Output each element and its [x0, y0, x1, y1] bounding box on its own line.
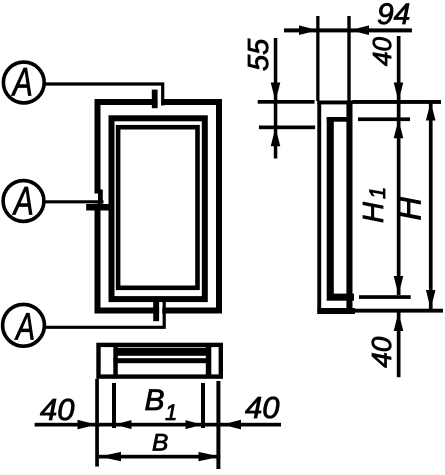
extension line top-left of side view: [316, 16, 319, 101]
svg-text:40: 40: [366, 336, 397, 368]
arrow 40-top up / H1 top: [394, 119, 404, 138]
gap in outer frame left border: [94, 194, 98, 204]
front view outer frame: [98, 102, 220, 311]
svg-text:40: 40: [367, 37, 397, 66]
dimension line H: [429, 102, 433, 310]
dimension line B: [99, 455, 221, 459]
svg-text:A: A: [14, 306, 35, 348]
witness line B1 right: [201, 383, 205, 428]
svg-text:H: H: [391, 197, 428, 221]
circle A3: [3, 304, 45, 346]
dimension line 40-top / H1: [397, 36, 401, 295]
circle A2: [3, 181, 44, 222]
svg-text:1: 1: [365, 187, 390, 199]
svg-text:94: 94: [377, 0, 410, 31]
bottom section mid bar: [113, 358, 208, 363]
arrow 94 left: [299, 25, 318, 35]
arrow B right: [199, 452, 221, 461]
gap in outer frame top border: [158, 98, 162, 105]
leader line from circle A1: [44, 84, 163, 106]
extension line top-right of side view: [347, 16, 350, 101]
dimension line 40 bottom-right: [397, 312, 401, 377]
svg-text:B: B: [145, 384, 165, 417]
jog segment left border: [98, 190, 103, 204]
side view top step: [327, 117, 353, 122]
side view top edge: [317, 101, 352, 105]
weld seam mark bottom: [153, 300, 159, 322]
dimension line 40-B1-40: [35, 423, 281, 427]
extension line 40-top step: [358, 117, 410, 121]
svg-text:55: 55: [243, 38, 275, 71]
bottom section right jamb bar: [206, 347, 212, 376]
extension line 55 upper: [258, 100, 315, 104]
svg-text:1: 1: [165, 400, 177, 425]
arrow H top: [426, 102, 436, 121]
circle A1: [3, 62, 44, 103]
arrow 55 up: [271, 127, 281, 146]
bottom section top step bar: [115, 348, 210, 356]
arrow 40-right: [222, 420, 241, 430]
side view inner bar: [327, 117, 334, 294]
arrow 40 bottom-right up: [394, 312, 404, 331]
dimension line 55: [274, 38, 278, 159]
arrow B left: [99, 452, 121, 461]
svg-text:40: 40: [245, 390, 279, 425]
arrow 94 right: [350, 25, 369, 35]
svg-text:40: 40: [40, 392, 74, 427]
extension line 55 lower: [259, 126, 315, 130]
bottom section view outer box: [99, 345, 221, 377]
extension line B left: [95, 379, 99, 467]
extension line H1 bottom: [359, 295, 411, 299]
side view bottom step: [327, 294, 354, 301]
leader line from circle A3: [45, 300, 164, 328]
arrow B1 right: [186, 420, 203, 429]
arrow 40-top down: [394, 83, 404, 102]
arrow H1 bottom: [394, 276, 404, 295]
side view bottom edge: [317, 308, 355, 314]
side view left edge: [317, 101, 321, 314]
svg-text:H: H: [358, 202, 390, 223]
arrow B1 left: [115, 420, 132, 429]
arrow 40-left: [78, 420, 97, 430]
gap in outer frame bottom border: [159, 307, 162, 315]
arrow H bottom: [426, 290, 436, 309]
extension line H top (right): [353, 100, 442, 104]
svg-text:B: B: [152, 430, 168, 457]
extension line bottom edge (right): [355, 309, 443, 313]
weld seam mark top: [152, 90, 158, 109]
side view right edge: [346, 101, 352, 315]
front view middle frame: [112, 118, 205, 299]
extension line B right: [216, 381, 220, 469]
witness line B1 left: [112, 383, 116, 428]
svg-text:A: A: [12, 179, 34, 223]
bottom section left jamb bar: [113, 347, 118, 376]
leader line from circle A2: [44, 200, 104, 203]
front view inner panel line: [118, 127, 197, 288]
svg-text:A: A: [11, 61, 33, 105]
weld seam mark left: [86, 204, 110, 211]
arrow 55 down: [271, 83, 281, 102]
dimension line 94: [284, 28, 412, 32]
